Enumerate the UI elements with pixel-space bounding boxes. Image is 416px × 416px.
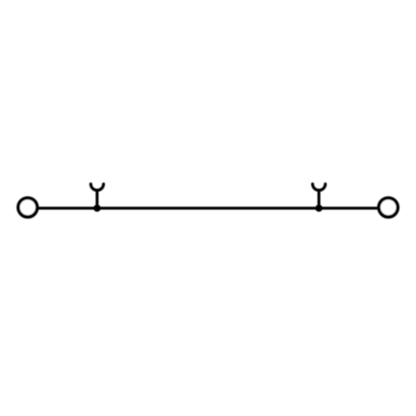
- junction dot right: [315, 205, 322, 212]
- wire stem left: [96, 189, 99, 208]
- test-plug socket arc left: [91, 184, 104, 190]
- terminal circle left: [18, 198, 37, 217]
- junction dot left: [94, 205, 101, 212]
- terminal circle right: [379, 198, 398, 217]
- test-plug socket arc right: [313, 184, 326, 190]
- wire stem right: [317, 189, 320, 208]
- wire: [38, 207, 378, 210]
